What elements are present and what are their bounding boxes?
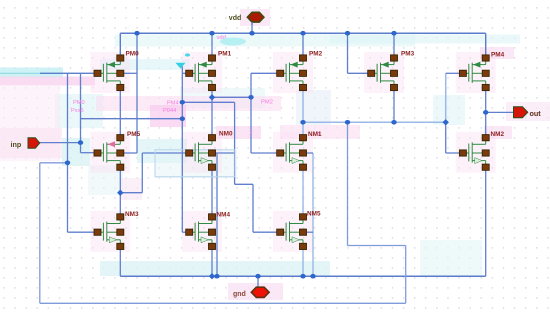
svg-text:NM2: NM2 xyxy=(491,131,505,138)
svg-text:PM0: PM0 xyxy=(73,100,85,106)
svg-text:inp: inp xyxy=(11,140,22,149)
svg-text:PM4: PM4 xyxy=(167,100,179,106)
svg-text:Pxx5: Pxx5 xyxy=(71,108,84,114)
svg-text:P044: P044 xyxy=(163,108,176,114)
svg-text:PM3: PM3 xyxy=(401,51,415,58)
svg-text:NM0: NM0 xyxy=(219,131,233,138)
svg-text:NM4: NM4 xyxy=(217,212,231,219)
svg-text:NM3: NM3 xyxy=(125,211,139,218)
svg-text:PM1: PM1 xyxy=(218,51,232,58)
svg-text:PM5: PM5 xyxy=(127,131,141,138)
svg-text:PM0: PM0 xyxy=(126,51,140,58)
svg-text:NM5: NM5 xyxy=(307,211,321,218)
svg-text:out: out xyxy=(530,109,542,118)
svg-text:NM1: NM1 xyxy=(308,131,322,138)
svg-text:vdd: vdd xyxy=(229,15,241,22)
svg-text:PM4: PM4 xyxy=(491,52,505,59)
svg-text:gnd: gnd xyxy=(233,291,246,298)
svg-text:PM2: PM2 xyxy=(309,51,323,58)
svg-text:1: 1 xyxy=(249,131,252,137)
svg-text:PM2: PM2 xyxy=(261,100,273,106)
